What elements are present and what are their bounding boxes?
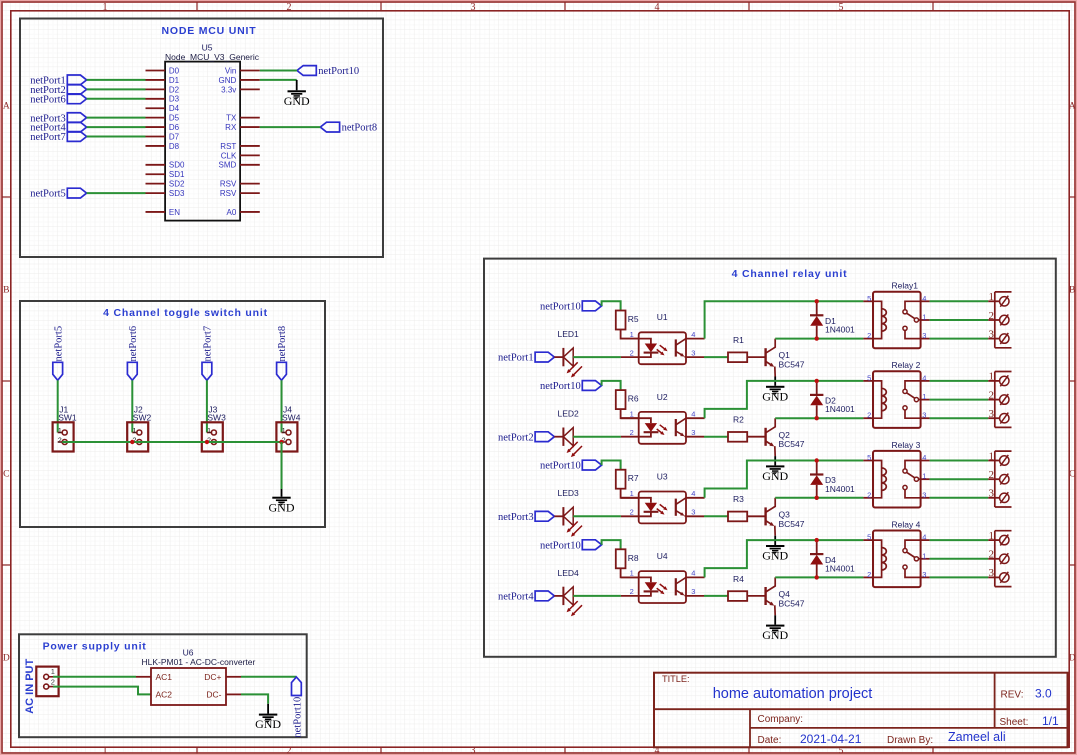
svg-text:4: 4 [922,533,926,542]
wire [621,330,639,339]
port netPort2 [535,432,554,442]
svg-text:D1: D1 [169,76,180,85]
U2 internal phototransistor [675,419,677,436]
wire [775,497,863,499]
junction [815,575,819,579]
svg-text:1: 1 [51,667,55,676]
svg-text:U3: U3 [657,471,668,481]
U2 internal LED [639,418,651,423]
port netPort8 [277,362,287,380]
LED LED3 [562,507,564,525]
svg-text:GND: GND [762,469,788,483]
section box: 4 Channel toggle switch unit [20,301,325,527]
wire [241,676,296,678]
svg-text:GND: GND [269,500,295,514]
terminal 1 [988,300,999,302]
svg-text:SMD: SMD [219,161,237,170]
svg-text:Relay 2: Relay 2 [892,360,921,370]
svg-text:4 Channel toggle switch unit: 4 Channel toggle switch unit [103,307,268,319]
Relay 3 pin 3 [921,497,930,499]
wire [775,576,863,578]
svg-text:4: 4 [922,294,926,303]
port netPort10 (channel 1) [582,301,601,311]
Relay1 pin 2 [863,338,873,340]
LED LED2 [562,428,564,446]
wire [602,381,621,390]
U4 pin 2 [621,595,639,597]
svg-text:BC547: BC547 [779,360,805,370]
wire [260,126,321,128]
terminal 3 [988,338,999,340]
svg-text:LED2: LED2 [558,409,580,419]
transistor Q1 BC547 [764,348,766,366]
Relay 2 pin 1 [921,399,930,401]
svg-text:Sheet:: Sheet: [1000,717,1029,728]
svg-text:U4: U4 [657,551,668,561]
U5 pin D8 [146,145,166,147]
IC U5 Node_MCU_V3_Generic body [165,62,240,221]
wire [930,539,989,541]
svg-text:Node_MCU_V3_Generic: Node_MCU_V3_Generic [165,52,260,62]
svg-text:1N4001: 1N4001 [825,563,855,573]
wire [705,540,864,577]
wire [705,461,864,498]
svg-text:GND: GND [762,389,788,403]
svg-text:1: 1 [922,313,926,322]
port netPort10 (channel 3) [582,460,601,470]
svg-text:D: D [1069,654,1076,664]
svg-text:EN: EN [169,208,180,217]
ground [774,615,776,624]
section box: Power supply unit [19,634,307,737]
svg-text:RX: RX [225,123,237,132]
svg-text:3: 3 [989,328,995,340]
svg-text:netPort10: netPort10 [540,381,581,392]
port netPort2 [67,84,86,94]
wire [87,126,146,128]
svg-text:D6: D6 [169,123,180,132]
wire [87,88,146,90]
svg-text:D8: D8 [169,142,180,151]
svg-text:netPort6: netPort6 [128,326,139,362]
junction [815,458,819,462]
svg-text:4: 4 [655,2,660,13]
wire [554,515,563,517]
svg-text:SW3: SW3 [207,412,226,422]
svg-text:netPort5: netPort5 [53,326,64,362]
U5 pin RX [240,126,260,128]
svg-text:D3: D3 [169,95,180,104]
optocoupler U4 [639,571,686,603]
port netPort10 [292,677,302,696]
svg-text:DC+: DC+ [204,672,221,682]
svg-text:R4: R4 [733,574,744,584]
svg-text:netPort8: netPort8 [342,123,378,134]
terminal 1 [988,380,999,382]
svg-text:1N4001: 1N4001 [825,325,855,335]
svg-text:5: 5 [867,373,871,382]
IC U6 HLK-PM01 body [151,668,226,705]
svg-text:BC547: BC547 [779,519,805,529]
terminal 2 [988,478,999,480]
svg-text:GND: GND [255,717,281,731]
svg-text:R3: R3 [733,494,744,504]
Relay 2 pin 5 [863,380,873,382]
svg-text:1: 1 [630,489,634,498]
U3 internal LED [639,498,651,503]
wire [602,540,621,549]
wire [87,79,146,81]
svg-text:TX: TX [226,114,237,123]
U1 pin 2 [621,356,639,358]
svg-text:netPort10: netPort10 [318,66,359,77]
U5 pin D3 [146,98,166,100]
U1 pin 3 [686,356,704,358]
U5 pin D5 [146,117,166,119]
wire [131,380,133,432]
svg-text:LED1: LED1 [558,329,580,339]
svg-text:2: 2 [989,549,995,561]
port netPort4 [535,591,554,601]
wire [930,300,989,302]
section box: 4 Channel relay unit [484,259,1056,657]
svg-text:2021-04-21: 2021-04-21 [800,732,862,746]
U2 pin 4 [686,417,705,419]
wire [930,399,989,401]
svg-text:Company:: Company: [758,714,804,725]
svg-text:R8: R8 [628,553,639,563]
U3 pin 2 [621,515,639,517]
svg-text:4: 4 [691,569,695,578]
svg-text:3: 3 [471,745,476,755]
wire [704,595,728,597]
wire [602,461,621,470]
svg-text:R7: R7 [628,473,639,483]
wire [573,515,621,517]
svg-text:BC547: BC547 [779,598,805,608]
svg-text:2: 2 [51,677,55,686]
Relay 2 contacts [905,381,921,389]
U3 pin 4 [686,497,705,499]
wire [621,409,639,418]
U1 pin 1 [621,338,639,340]
svg-text:3: 3 [989,567,995,579]
svg-text:2: 2 [630,587,634,596]
svg-text:SD3: SD3 [169,189,185,198]
wire [704,515,728,517]
svg-text:SD1: SD1 [169,170,185,179]
transistor Q3 BC547 [764,507,766,525]
Relay1 contacts [905,301,921,309]
ground [296,80,298,90]
U4 pin 3 [686,595,704,597]
svg-text:3: 3 [471,2,476,13]
svg-text:CLK: CLK [221,151,237,160]
Relay 2 pin 3 [921,417,930,419]
port netPort5 [53,362,63,380]
wire [747,356,765,358]
svg-text:U1: U1 [657,312,668,322]
svg-text:netPort1: netPort1 [498,353,534,364]
svg-text:DC-: DC- [206,689,221,699]
svg-text:GND: GND [284,94,310,108]
LED LED4 [562,587,564,605]
wire [930,576,989,578]
svg-text:4: 4 [922,453,926,462]
wire [704,436,728,438]
terminal 3 [988,576,999,578]
U6 pin DC+ [226,676,241,678]
svg-text:netPort7: netPort7 [203,326,214,362]
svg-text:NODE MCU UNIT: NODE MCU UNIT [162,25,257,37]
svg-text:Relay 4: Relay 4 [892,519,921,529]
screw terminal block (channel 2) [994,372,996,428]
svg-text:3: 3 [989,408,995,420]
ground [774,536,776,545]
svg-text:GND: GND [762,628,788,642]
svg-text:2: 2 [989,310,995,322]
svg-text:4: 4 [691,330,695,339]
svg-text:netPort4: netPort4 [498,592,534,603]
U5 pin D2 [146,88,166,90]
port netPort7 [202,362,212,380]
svg-text:3: 3 [691,587,695,596]
svg-text:Zameel ali: Zameel ali [948,730,1006,744]
port netPort3 [67,113,86,123]
wire [930,380,989,382]
wire [930,338,989,340]
U5 pin RST [240,145,260,147]
junction [815,299,819,303]
wire [87,136,146,138]
switch SW3 (J3) [202,422,223,451]
svg-text:SW1: SW1 [58,412,77,422]
svg-text:1N4001: 1N4001 [825,484,855,494]
svg-text:netPort2: netPort2 [498,432,534,443]
junction [205,440,209,444]
Relay1 coil [873,301,882,338]
svg-text:2: 2 [287,745,292,755]
optocoupler U1 [639,332,686,364]
U3 pin 3 [686,515,704,517]
svg-text:C: C [3,470,9,480]
Relay1 pin 5 [863,300,873,302]
junction [815,416,819,420]
svg-text:3: 3 [691,428,695,437]
wire [930,417,989,419]
screw terminal block (channel 1) [994,292,996,348]
wire [775,338,863,340]
U2 pin 1 [621,417,639,419]
svg-text:A: A [1069,102,1076,112]
Relay 4 pin 3 [921,576,930,578]
svg-text:BC547: BC547 [779,439,805,449]
svg-text:LED4: LED4 [558,568,580,578]
diode D4 1N4001 [816,540,818,554]
Relay 4 pin 4 [921,539,930,541]
junction [815,379,819,383]
U5 pin SD0 [146,164,166,166]
Relay 4 pin 5 [863,539,873,541]
U4 pin 1 [621,576,639,578]
wire [602,301,621,310]
wire [573,436,621,438]
svg-text:netPort3: netPort3 [498,512,534,523]
svg-text:2: 2 [58,438,62,445]
svg-text:4: 4 [922,373,926,382]
svg-text:1: 1 [922,551,926,560]
svg-text:3: 3 [989,488,995,500]
svg-text:2: 2 [867,331,871,340]
wire [87,117,146,119]
port netPort3 [535,511,554,521]
U5 pin D0 [146,70,166,72]
U1 internal LED [639,339,651,344]
wire [705,381,864,418]
svg-text:C: C [1069,470,1075,480]
svg-text:3: 3 [691,348,695,357]
Relay 3 pin 1 [921,478,930,480]
svg-text:Date:: Date: [758,735,782,746]
svg-text:2: 2 [630,428,634,437]
wire [573,356,621,358]
port netPort10 (channel 2) [582,381,601,391]
port netPort4 [67,122,86,132]
U3 pin 1 [621,497,639,499]
svg-text:D: D [3,654,10,664]
wire [930,478,989,480]
svg-text:1: 1 [103,2,108,13]
svg-text:2: 2 [867,490,871,499]
Relay 3 contacts [905,461,921,469]
wire [930,497,989,499]
svg-text:TITLE:: TITLE: [662,674,690,684]
svg-text:R1: R1 [733,335,744,345]
Relay 3 pin 2 [863,497,873,499]
svg-text:R2: R2 [733,415,744,425]
svg-text:1: 1 [989,530,995,542]
resistor R8 [616,549,626,568]
U3 internal phototransistor [675,499,677,516]
LED LED1 [562,348,564,366]
svg-text:AC2: AC2 [156,689,173,699]
wire [554,356,563,358]
svg-text:5: 5 [839,2,844,13]
svg-text:RST: RST [220,142,236,151]
wire [704,356,728,358]
svg-text:B: B [1069,286,1075,296]
wire [747,515,765,517]
svg-text:U2: U2 [657,392,668,402]
svg-text:4: 4 [691,409,695,418]
wire [260,79,297,81]
svg-text:HLK-PM01 - AC-DC-converter: HLK-PM01 - AC-DC-converter [141,657,255,667]
junction [815,496,819,500]
svg-text:1: 1 [989,450,995,462]
screw terminal block (channel 3) [994,451,996,507]
svg-text:AC1: AC1 [156,672,173,682]
svg-text:1/1: 1/1 [1042,714,1059,728]
wire [206,380,208,432]
svg-text:3: 3 [922,490,926,499]
ground [281,489,283,497]
svg-text:GND: GND [219,76,237,85]
port netPort5 [67,188,86,198]
svg-text:SD2: SD2 [169,180,185,189]
U5 pin D6 [146,126,166,128]
ground [774,456,776,465]
Relay1 pin 3 [921,338,930,340]
U5 pin A0 [240,211,260,213]
svg-text:1: 1 [989,371,995,383]
wire [573,595,621,597]
terminal 2 [988,399,999,401]
svg-text:Relay1: Relay1 [892,281,919,291]
svg-text:LED3: LED3 [558,488,580,498]
transistor Q2 BC547 [764,428,766,446]
resistor R5 [616,311,626,330]
transistor Q4 BC547 [764,587,766,605]
wire [621,489,639,498]
U1 pin 4 [686,338,705,340]
Relay1 pin 4 [921,300,930,302]
port netPort6 [127,362,137,380]
svg-text:netPort5: netPort5 [30,189,66,200]
U5 pin D7 [146,136,166,138]
svg-text:2: 2 [630,508,634,517]
U2 pin 2 [621,436,639,438]
U6 pin AC1 [136,676,151,678]
svg-text:netPort10: netPort10 [540,302,581,313]
U2 pin 3 [686,436,704,438]
Relay 2 coil [873,381,882,418]
svg-text:B: B [3,286,9,296]
wire [87,98,146,100]
wire [53,687,151,695]
U6 pin DC- [226,693,241,695]
svg-text:4 Channel relay unit: 4 Channel relay unit [732,268,848,280]
terminal 3 [988,497,999,499]
diode D1 1N4001 [816,301,818,315]
screw terminal block (channel 4) [994,531,996,587]
svg-text:1: 1 [630,409,634,418]
wire [747,436,765,438]
svg-text:1N4001: 1N4001 [825,404,855,414]
U5 pin EN [146,211,166,213]
U4 internal LED [639,577,651,582]
svg-text:SW2: SW2 [133,412,152,422]
svg-text:1: 1 [207,428,211,435]
switch SW2 (J2) [127,422,148,451]
svg-text:SW4: SW4 [282,412,301,422]
junction [815,336,819,340]
svg-text:1: 1 [58,428,62,435]
switch SW4 (J4) [276,422,297,451]
svg-text:Drawn By:: Drawn By: [887,735,933,746]
U5 pin SD1 [146,173,166,175]
svg-text:2: 2 [989,389,995,401]
wire [62,441,281,443]
svg-text:1: 1 [132,428,136,435]
svg-text:2: 2 [867,570,871,579]
svg-text:1: 1 [282,428,286,435]
svg-text:netPort8: netPort8 [277,326,288,362]
port netPort1 [67,75,86,85]
svg-text:RSV: RSV [220,189,237,198]
wire [705,301,864,338]
title block [654,673,1068,748]
U5 pin CLK [240,154,260,156]
